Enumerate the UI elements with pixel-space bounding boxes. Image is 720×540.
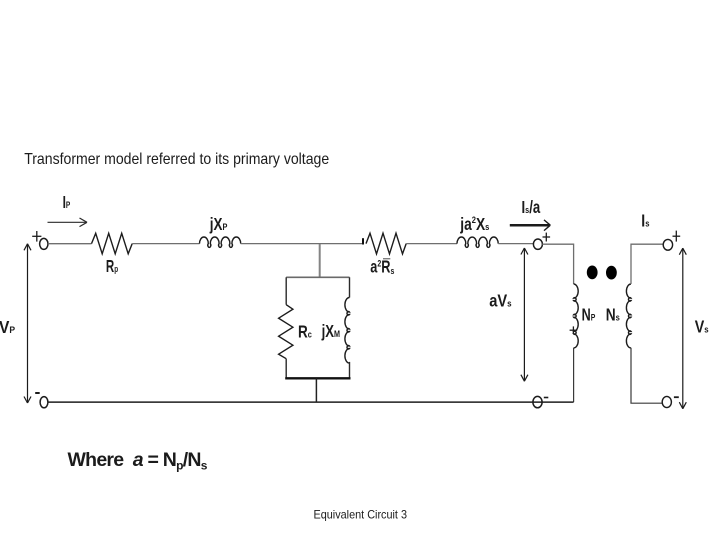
svg-text:ja2Xs: ja2Xs	[459, 214, 489, 234]
svg-text:Transformer model referred to: Transformer model referred to its primar…	[24, 151, 329, 168]
node terminal circle (aVs +)	[533, 239, 542, 249]
svg-text:VP: VP	[0, 318, 15, 337]
resistor Rc	[279, 305, 293, 359]
minus sign at primary - terminal	[35, 392, 40, 394]
wire down to Np winding	[573, 244, 575, 285]
svg-text:Ns: Ns	[606, 306, 620, 325]
polarity dot primary	[587, 266, 598, 280]
svg-text:jXP: jXP	[209, 215, 228, 234]
polarity dot secondary	[606, 266, 617, 280]
arrow aVs (double headed)	[521, 248, 528, 381]
resistor a2Rs	[366, 233, 406, 254]
svg-text:NP: NP	[582, 306, 596, 325]
box left edge upper	[285, 277, 287, 304]
plus sign right of aVs node	[543, 233, 551, 242]
svg-text:Equivalent Circuit 3: Equivalent Circuit 3	[314, 508, 408, 521]
node terminal circle secondary +	[663, 239, 672, 250]
plus sign on Np winding	[570, 326, 578, 334]
node terminal circle bottom (aVs -)	[533, 396, 542, 407]
svg-text:Where a = Np/Ns: Where a = Np/Ns	[68, 449, 208, 472]
svg-text:Vs: Vs	[695, 319, 709, 338]
minus sign secondary	[674, 396, 679, 398]
svg-text:IP: IP	[63, 194, 71, 213]
inductor ja2Xs	[457, 237, 498, 247]
plus sign at primary + terminal	[32, 231, 41, 242]
inductor jXp	[200, 237, 241, 247]
wire node to primary-loop corner	[542, 243, 573, 245]
wire from Rp to jXp	[132, 243, 199, 245]
left voltage arrow Vp (double headed)	[24, 244, 31, 403]
svg-text:jXM: jXM	[321, 322, 340, 341]
minus sign right of bottom aVs node	[544, 397, 549, 399]
svg-text:Rc: Rc	[298, 323, 312, 342]
node terminal circle top-left	[40, 238, 48, 249]
inductor jXm	[345, 298, 350, 364]
bottom rail wire right dark section	[480, 401, 574, 403]
wire from top-left terminal to Rp	[48, 243, 91, 245]
wire from ja2Xs to node circle	[498, 243, 533, 245]
svg-text:a2Rs: a2Rs	[370, 257, 394, 277]
wire Np bottom to bottom rail	[573, 348, 575, 402]
transformer winding Np	[574, 284, 579, 348]
junction vertical wire to magnetizing branch	[319, 244, 321, 277]
node terminal circle secondary -	[662, 396, 671, 407]
bottom rail wire	[48, 401, 480, 403]
svg-text:Is/a: Is/a	[522, 198, 541, 217]
svg-text:Rp: Rp	[106, 258, 118, 277]
overbar artifact above R of a2Rs	[383, 258, 390, 260]
box left edge lower	[285, 359, 287, 379]
wire Ns top to secondary + terminal	[631, 244, 663, 284]
plus sign secondary	[673, 231, 681, 242]
arrow Vs (double headed)	[679, 248, 686, 409]
wire from a2Rs to ja2Xs	[406, 243, 457, 245]
box right edge lower	[349, 362, 351, 378]
wire box bottom to bottom rail	[315, 378, 317, 402]
arrow Ip current direction	[48, 218, 88, 227]
svg-text:Is: Is	[641, 212, 649, 231]
magnetizing branch box top edge	[286, 276, 349, 278]
box bottom edge	[285, 377, 350, 379]
wire from jXp to junction and to tick	[241, 243, 362, 245]
junction tick before a2Rs	[362, 238, 364, 244]
svg-text:aVs: aVs	[489, 291, 511, 310]
wire Ns bottom to secondary - terminal	[631, 348, 662, 403]
arrow Is/a current direction	[510, 220, 551, 231]
node terminal circle bottom-left	[40, 397, 48, 408]
transformer winding Ns	[626, 284, 631, 348]
box right edge upper	[349, 277, 351, 297]
resistor Rp	[92, 233, 133, 254]
